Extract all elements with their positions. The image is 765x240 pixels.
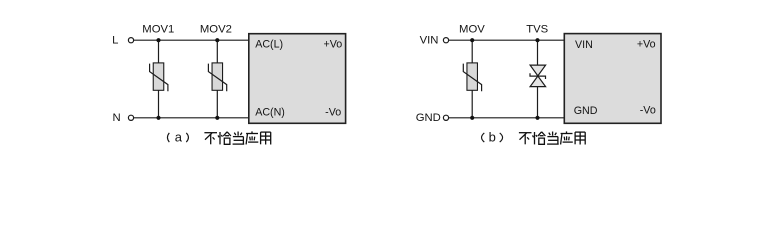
svg-text:MOV1: MOV1: [142, 23, 174, 35]
svg-text:a: a: [175, 129, 183, 144]
svg-text:AC(L): AC(L): [255, 39, 283, 51]
svg-text:GND: GND: [574, 105, 598, 117]
svg-text:MOV2: MOV2: [200, 23, 232, 35]
svg-text:L: L: [112, 35, 118, 47]
svg-text:b: b: [489, 129, 496, 144]
svg-text:GND: GND: [416, 112, 441, 124]
svg-text:MOV: MOV: [459, 23, 485, 35]
svg-text:+Vo: +Vo: [323, 39, 342, 51]
svg-text:-Vo: -Vo: [640, 105, 656, 117]
svg-text:VIN: VIN: [420, 35, 439, 47]
svg-text:AC(N): AC(N): [255, 106, 285, 118]
svg-text:N: N: [113, 112, 121, 124]
svg-text:TVS: TVS: [526, 23, 548, 35]
svg-text:+Vo: +Vo: [637, 39, 656, 51]
svg-text:-Vo: -Vo: [325, 107, 341, 119]
svg-text:VIN: VIN: [575, 39, 593, 51]
